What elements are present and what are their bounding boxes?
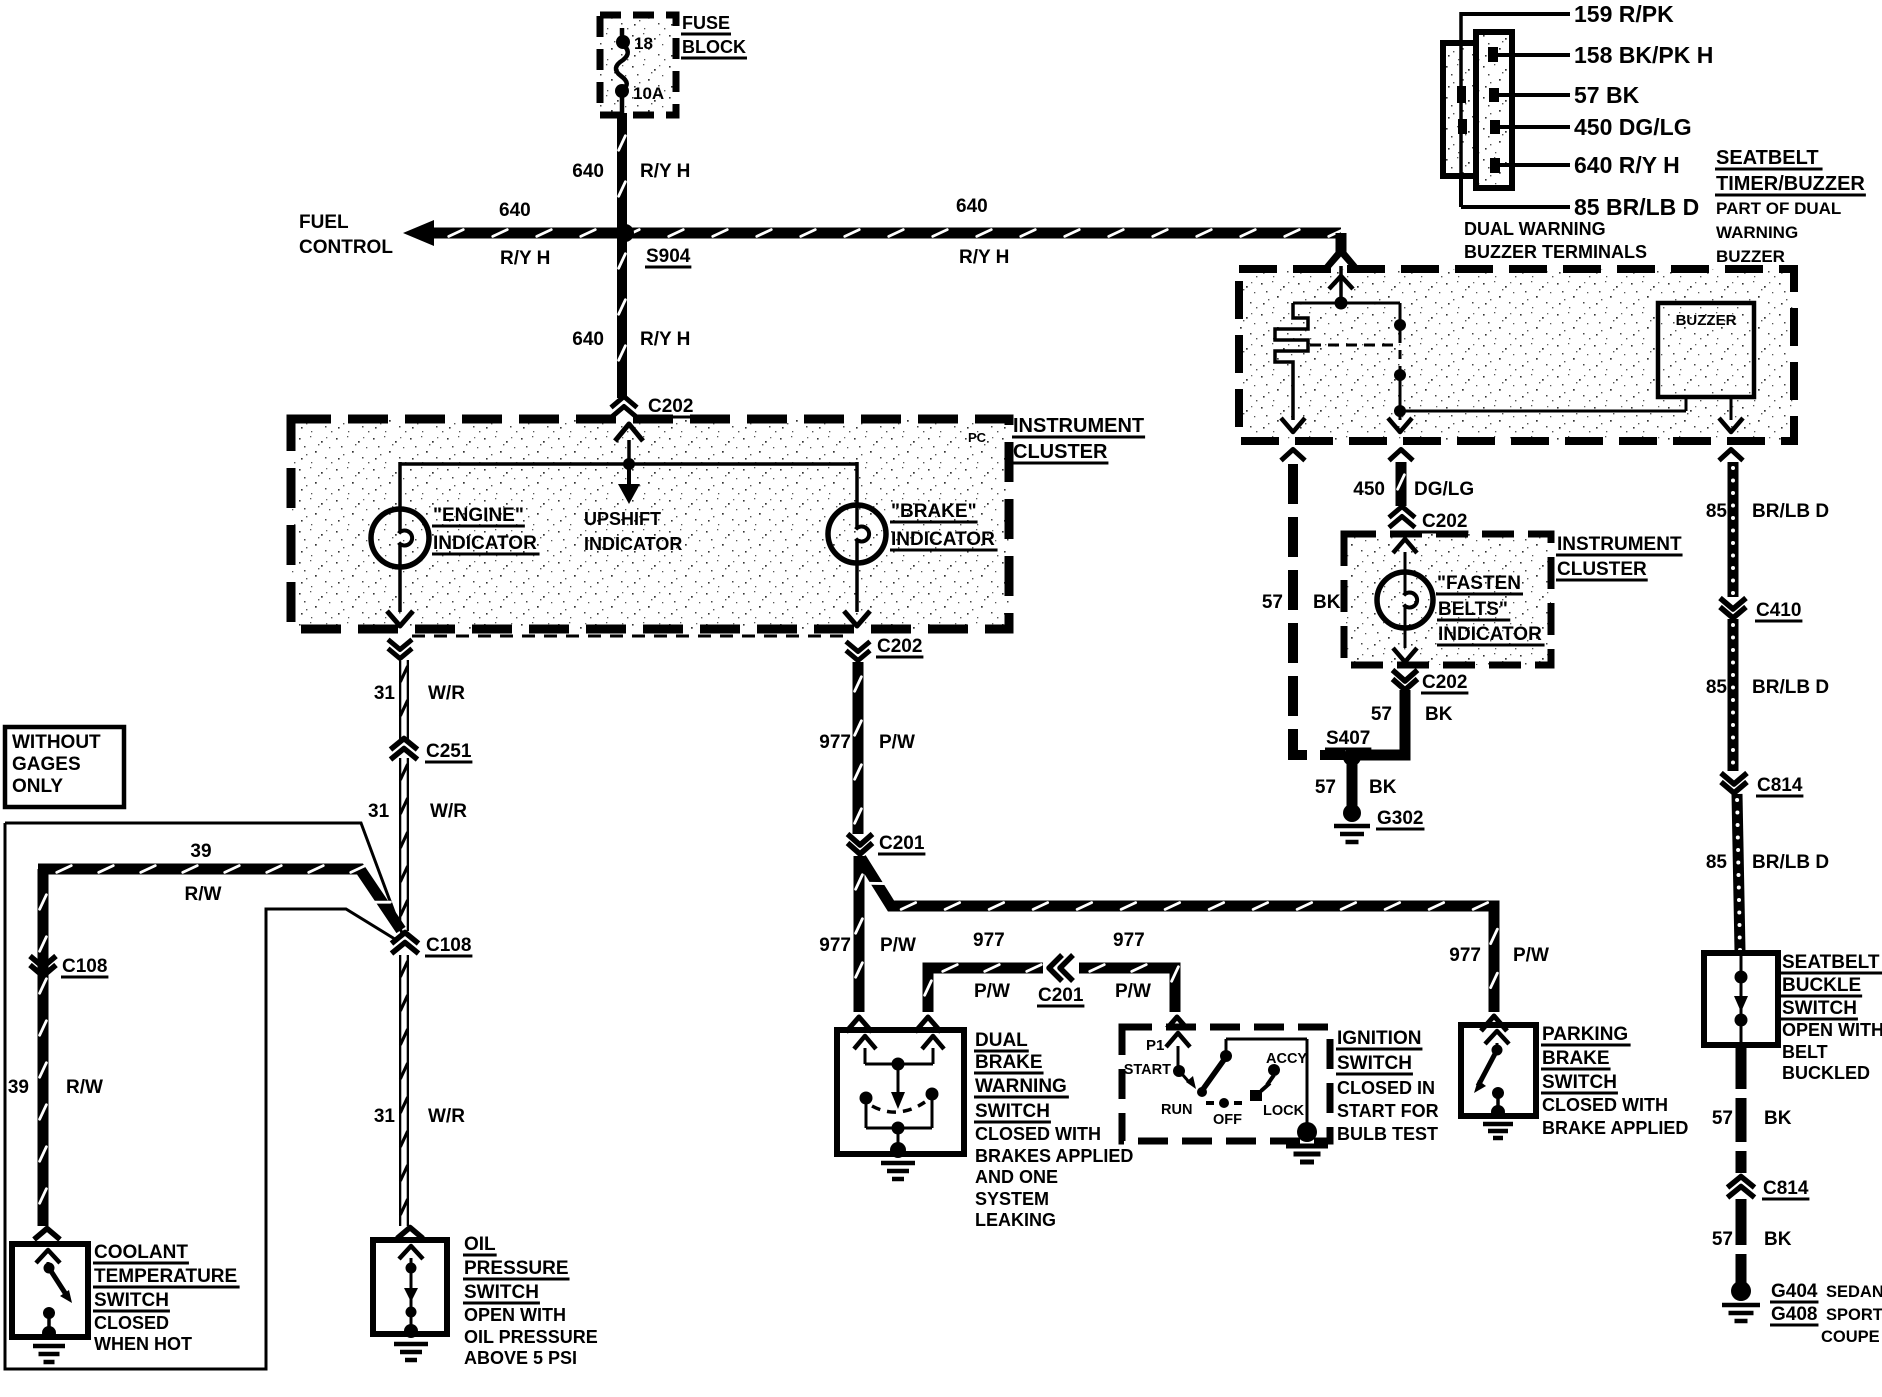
label 85 BR/LB D (middle) [1706, 677, 1829, 698]
svg-text:640: 640 [572, 329, 604, 350]
connector C202 (brake side) [846, 636, 923, 661]
svg-text:LOCK: LOCK [1263, 1103, 1305, 1119]
svg-text:OIL: OIL [464, 1234, 496, 1255]
label 640 R/Y H (cluster feed) [572, 329, 690, 350]
svg-text:CLUSTER: CLUSTER [1013, 441, 1108, 463]
label 85 BR/LB D (lower) [1706, 852, 1829, 873]
svg-text:INSTRUMENT: INSTRUMENT [1557, 534, 1682, 555]
parking brake switch [1461, 1025, 1536, 1119]
wire 85 BR/LB D C814 to buckle switch [1735, 794, 1742, 952]
svg-text:G302: G302 [1377, 808, 1423, 829]
svg-text:CLOSED WITH: CLOSED WITH [1542, 1095, 1668, 1115]
svg-text:BULB TEST: BULB TEST [1337, 1124, 1438, 1144]
ground G302 [1334, 804, 1424, 842]
wire 57 BK C814 to ground [1736, 1199, 1747, 1284]
without gages enclosure line (loop) [5, 823, 398, 1369]
svg-text:P/W: P/W [1115, 981, 1151, 1002]
svg-text:SYSTEM: SYSTEM [975, 1189, 1049, 1209]
svg-text:LEAKING: LEAKING [975, 1210, 1056, 1230]
connector C201 (brake feed) [848, 833, 926, 854]
svg-text:640: 640 [956, 196, 988, 217]
connector at buzzer (450 DG/LG) [1389, 450, 1413, 461]
seatbelt buckle switch [1704, 953, 1778, 1045]
label 57 BK (to ground) [1712, 1229, 1792, 1250]
label OIL PRESSURE SWITCH [463, 1234, 598, 1368]
terminal lead 159 R/PK [1461, 1, 1674, 178]
label 450 DG/LG [1353, 479, 1474, 500]
svg-text:C202: C202 [877, 636, 922, 657]
connector C814 [1721, 773, 1803, 796]
dual brake warning switch [837, 1030, 964, 1158]
svg-text:SWITCH: SWITCH [1782, 998, 1857, 1019]
connector at coolant switch [34, 1229, 60, 1240]
svg-text:INSTRUMENT: INSTRUMENT [1013, 415, 1144, 437]
svg-text:INDICATOR: INDICATOR [433, 533, 537, 554]
svg-text:31: 31 [374, 683, 396, 704]
svg-text:BK: BK [1369, 777, 1397, 798]
svg-text:G408: G408 [1771, 1304, 1817, 1325]
svg-text:BLOCK: BLOCK [682, 37, 746, 57]
svg-text:BRAKE: BRAKE [975, 1052, 1043, 1073]
svg-text:BR/LB D: BR/LB D [1752, 677, 1829, 698]
ground at parking brake switch [1483, 1124, 1513, 1138]
svg-text:R/Y H: R/Y H [640, 329, 690, 350]
label 57 BK (buzzer) [1262, 592, 1341, 613]
wire 85 BR/LB D C410 to C814 [1731, 619, 1735, 771]
svg-text:57: 57 [1712, 1108, 1733, 1129]
ignition switch box [1122, 1027, 1330, 1141]
connector at oil pressure switch [397, 1228, 423, 1239]
svg-text:AND ONE: AND ONE [975, 1167, 1058, 1187]
svg-text:85 BR/LB D: 85 BR/LB D [1574, 194, 1699, 220]
coolant temperature switch [12, 1244, 88, 1340]
ground at coolant switch [33, 1346, 65, 1362]
svg-text:57: 57 [1315, 777, 1336, 798]
svg-text:450: 450 [1353, 479, 1385, 500]
svg-text:C410: C410 [1756, 600, 1801, 621]
wire 640 R/Y H to fuel control (arrow) [403, 220, 1343, 246]
timer feed entry arrow [1326, 252, 1356, 303]
label 57 BK (ground lead) [1315, 777, 1397, 798]
dual warning buzzer terminals connector [1443, 32, 1512, 188]
label IGNITION SWITCH [1336, 1028, 1439, 1144]
svg-text:START: START [1124, 1062, 1171, 1078]
label DUAL BRAKE WARNING SWITCH [974, 1030, 1133, 1230]
svg-text:ABOVE 5 PSI: ABOVE 5 PSI [464, 1348, 577, 1368]
svg-text:C202: C202 [1422, 672, 1467, 693]
svg-text:977: 977 [1449, 945, 1481, 966]
svg-text:W/R: W/R [428, 683, 465, 704]
svg-text:BK: BK [1313, 592, 1341, 613]
terminal arrow into ignition switch [1164, 1017, 1190, 1032]
svg-text:DUAL WARNING: DUAL WARNING [1464, 219, 1606, 239]
ground G404/G408 [1722, 1281, 1882, 1346]
svg-text:COUPE: COUPE [1821, 1328, 1880, 1346]
svg-text:R/Y H: R/Y H [959, 247, 1009, 268]
svg-text:640: 640 [499, 200, 531, 221]
svg-text:85: 85 [1706, 852, 1728, 873]
label SEATBELT TIMER/BUZZER [1715, 147, 1866, 266]
wire 31 W/R engine indicator to C251 [401, 660, 408, 740]
engine indicator lamp [371, 505, 540, 567]
terminal arrow into parking brake switch [1481, 1016, 1507, 1031]
connector C202 (engine side) [388, 640, 412, 659]
wire 57 BK S407 to G302 [1347, 757, 1358, 806]
svg-text:WARNING: WARNING [1716, 223, 1798, 242]
svg-text:S407: S407 [1326, 728, 1370, 749]
svg-text:PARKING: PARKING [1542, 1024, 1628, 1045]
connector C202 (main feed) [611, 396, 694, 418]
svg-text:TIMER/BUZZER: TIMER/BUZZER [1716, 173, 1865, 195]
svg-text:31: 31 [374, 1106, 396, 1127]
svg-text:INDICATOR: INDICATOR [1438, 624, 1542, 645]
instrument cluster box [291, 415, 1145, 629]
splice S904 [616, 224, 691, 267]
label FUEL CONTROL [299, 212, 393, 258]
svg-text:WITHOUT: WITHOUT [12, 732, 101, 753]
label PARKING BRAKE SWITCH [1541, 1024, 1688, 1138]
instrument cluster (fasten belts) box [1344, 534, 1683, 665]
fuse 18 / 10A [615, 28, 664, 113]
svg-text:"ENGINE": "ENGINE" [433, 505, 524, 526]
svg-text:PC: PC [968, 430, 987, 445]
svg-text:FUSE: FUSE [682, 13, 730, 33]
svg-text:SEATBELT: SEATBELT [1782, 952, 1880, 973]
svg-text:85: 85 [1706, 501, 1728, 522]
fasten belts indicator lamp [1377, 539, 1545, 662]
svg-text:SPORT: SPORT [1826, 1306, 1882, 1324]
connector at buzzer (57 BK) [1281, 450, 1305, 461]
svg-text:CLUSTER: CLUSTER [1557, 559, 1647, 580]
oil pressure switch [373, 1240, 447, 1338]
connector C251 [391, 739, 473, 763]
svg-text:31: 31 [368, 801, 390, 822]
wire 57 BK fasten belts to S407 [1352, 690, 1405, 755]
connector C202 row (dashed line) [412, 635, 851, 638]
buzzer [1658, 303, 1754, 432]
svg-text:18: 18 [634, 34, 653, 53]
wire 57 BK buckle switch to C814 [1736, 1045, 1747, 1173]
svg-text:P/W: P/W [1513, 945, 1549, 966]
svg-text:10A: 10A [633, 84, 664, 103]
svg-text:57: 57 [1262, 592, 1283, 613]
svg-text:SEDAN: SEDAN [1826, 1283, 1882, 1301]
svg-text:C108: C108 [62, 956, 107, 977]
svg-text:BRAKE: BRAKE [1542, 1048, 1610, 1069]
svg-text:C108: C108 [426, 935, 471, 956]
wire 57 BK buzzer to S407 [1293, 464, 1345, 755]
terminal lead 158 BK/PK H [1498, 42, 1713, 68]
label 640 R/Y H (left run) [499, 200, 550, 269]
without gages only note box [5, 727, 124, 807]
svg-text:BRAKES APPLIED: BRAKES APPLIED [975, 1146, 1133, 1166]
svg-text:"FASTEN: "FASTEN [1437, 573, 1521, 594]
terminal lead 57 BK [1498, 82, 1640, 108]
label 977 P/W (dual brake) [819, 935, 916, 956]
svg-text:START FOR: START FOR [1337, 1101, 1439, 1121]
brake indicator exit wire [844, 563, 870, 626]
ignition switch internals [1124, 1033, 1308, 1128]
svg-text:158 BK/PK H: 158 BK/PK H [1574, 42, 1713, 68]
svg-text:977: 977 [973, 930, 1005, 951]
svg-text:450 DG/LG: 450 DG/LG [1574, 114, 1692, 140]
svg-text:"BRAKE": "BRAKE" [891, 501, 977, 522]
engine indicator exit wire [387, 567, 413, 626]
svg-text:S904: S904 [646, 246, 691, 267]
svg-text:INDICATOR: INDICATOR [891, 529, 995, 550]
connector C108 (coolant circuit) [30, 956, 108, 977]
wire 85 BR/LB D buzzer to C410 [1731, 462, 1735, 597]
ground at oil pressure switch [394, 1344, 428, 1360]
svg-text:ONLY: ONLY [12, 776, 63, 797]
svg-text:OPEN WITH: OPEN WITH [464, 1305, 566, 1325]
ground at ignition switch [1286, 1122, 1328, 1162]
svg-text:977: 977 [1113, 930, 1145, 951]
wire 640 R/Y H fuse block to S904 [619, 113, 626, 233]
svg-text:P1: P1 [1146, 1037, 1164, 1054]
terminal lead 85 BR/LB D [1461, 176, 1699, 220]
svg-text:640: 640 [572, 161, 604, 182]
label 977 P/W (right of C201) [1113, 930, 1151, 1002]
svg-text:977: 977 [819, 935, 851, 956]
svg-text:SWITCH: SWITCH [975, 1101, 1050, 1122]
svg-text:CLOSED: CLOSED [94, 1313, 169, 1333]
svg-text:85: 85 [1706, 677, 1728, 698]
ground at dual brake warning switch [881, 1163, 915, 1179]
label 977 P/W (parking brake) [1449, 945, 1549, 966]
svg-text:DG/LG: DG/LG [1414, 479, 1474, 500]
svg-text:P/W: P/W [974, 981, 1010, 1002]
svg-text:R/W: R/W [185, 884, 222, 905]
svg-text:977: 977 [819, 732, 851, 753]
label 640 R/Y H (fuse feed) [572, 161, 690, 182]
wire 640 R/Y H to seatbelt timer/buzzer [1326, 233, 1356, 268]
svg-text:BELT: BELT [1782, 1042, 1828, 1062]
svg-text:C251: C251 [426, 741, 472, 762]
label 977 P/W (left of C201) [973, 930, 1010, 1002]
svg-text:57: 57 [1712, 1229, 1733, 1250]
label 39 R/W (horizontal) [185, 841, 222, 905]
svg-text:R/Y H: R/Y H [640, 161, 690, 182]
svg-text:CONTROL: CONTROL [299, 237, 393, 258]
svg-text:SWITCH: SWITCH [1337, 1053, 1412, 1074]
svg-text:W/R: W/R [428, 1106, 465, 1127]
svg-text:G404: G404 [1771, 1281, 1818, 1302]
label 31 (enclosure) [368, 801, 467, 822]
svg-text:BRAKE APPLIED: BRAKE APPLIED [1542, 1118, 1688, 1138]
wire 977 P/W C201 to dual brake warning switch [856, 856, 863, 1012]
timer internal wiring [1275, 297, 1686, 433]
svg-text:GAGES: GAGES [12, 754, 81, 775]
seatbelt timer/buzzer box [1239, 269, 1794, 441]
svg-text:57: 57 [1371, 704, 1392, 725]
svg-text:BK: BK [1425, 704, 1453, 725]
svg-text:OFF: OFF [1213, 1112, 1242, 1128]
svg-text:OIL PRESSURE: OIL PRESSURE [464, 1327, 598, 1347]
svg-text:FUEL: FUEL [299, 212, 349, 233]
wire 640 R/Y H S904 to C202 [619, 233, 626, 398]
svg-text:TEMPERATURE: TEMPERATURE [94, 1266, 237, 1287]
svg-text:39: 39 [8, 1077, 29, 1098]
connector C202 (450 DG/LG) [1389, 507, 1468, 533]
label 31 W/R (lower) [374, 1106, 465, 1127]
wire 450 DG/LG [1398, 462, 1405, 506]
label 640 R/Y H (right run) [956, 196, 1009, 268]
svg-text:W/R: W/R [430, 801, 467, 822]
label DUAL WARNING BUZZER TERMINALS [1464, 219, 1647, 262]
svg-text:SWITCH: SWITCH [464, 1282, 539, 1303]
svg-text:ACCY: ACCY [1266, 1051, 1307, 1067]
connector C410 [1720, 598, 1802, 621]
svg-text:SEATBELT: SEATBELT [1716, 147, 1819, 169]
svg-text:RUN: RUN [1161, 1102, 1192, 1118]
svg-text:57 BK: 57 BK [1574, 82, 1640, 108]
svg-text:C202: C202 [648, 396, 693, 417]
label 31 W/R (upper) [374, 683, 465, 704]
svg-text:P/W: P/W [879, 732, 915, 753]
label 57 BK (fasten belts) [1371, 704, 1453, 725]
svg-text:C814: C814 [1757, 775, 1803, 796]
wire 31 W/R C108 to oil pressure switch [401, 955, 408, 1226]
svg-text:UPSHIFT: UPSHIFT [584, 509, 661, 529]
svg-text:DUAL: DUAL [975, 1030, 1028, 1051]
connector at buzzer (85 BR/LB D) [1719, 450, 1743, 461]
svg-text:BELTS": BELTS" [1438, 599, 1508, 620]
svg-text:COOLANT: COOLANT [94, 1242, 188, 1263]
terminal lead 640 R/Y H [1499, 152, 1680, 178]
svg-text:WHEN HOT: WHEN HOT [94, 1334, 192, 1354]
label 39 R/W (vertical) [8, 1077, 103, 1098]
svg-text:SWITCH: SWITCH [1542, 1072, 1617, 1093]
svg-text:C814: C814 [1763, 1178, 1809, 1199]
label SEATBELT BUCKLE SWITCH [1781, 952, 1882, 1083]
wire 977 P/W dual brake to ignition switch [925, 965, 1179, 1012]
svg-text:BK: BK [1764, 1229, 1792, 1250]
wire 39 R/W coolant switch to C108 [38, 866, 401, 1226]
label 57 BK (buckle) [1712, 1108, 1792, 1129]
svg-text:BR/LB D: BR/LB D [1752, 852, 1829, 873]
svg-text:BUCKLE: BUCKLE [1782, 975, 1861, 996]
svg-text:PRESSURE: PRESSURE [464, 1258, 569, 1279]
svg-text:SWITCH: SWITCH [94, 1290, 169, 1311]
svg-text:IGNITION: IGNITION [1337, 1028, 1421, 1049]
svg-text:BUZZER TERMINALS: BUZZER TERMINALS [1464, 242, 1647, 262]
wire 977 P/W branch to parking brake switch [861, 858, 1497, 1012]
svg-text:BUZZER: BUZZER [1716, 247, 1785, 266]
svg-text:BUZZER: BUZZER [1676, 312, 1737, 329]
svg-text:39: 39 [190, 841, 211, 862]
svg-text:BK: BK [1764, 1108, 1792, 1129]
connector C108 (oil pressure circuit) [392, 933, 473, 957]
cluster internal bus wire [400, 458, 857, 509]
cluster feed entry arrow [615, 424, 643, 464]
svg-text:PART OF DUAL: PART OF DUAL [1716, 199, 1841, 218]
svg-text:BR/LB D: BR/LB D [1752, 501, 1829, 522]
svg-text:BUCKLED: BUCKLED [1782, 1063, 1870, 1083]
label COOLANT TEMPERATURE SWITCH [93, 1242, 240, 1354]
connector C814 (floor) [1728, 1177, 1810, 1200]
svg-text:INDICATOR: INDICATOR [584, 534, 682, 554]
upshift indicator arrow [584, 464, 682, 554]
svg-text:640 R/Y H: 640 R/Y H [1574, 152, 1680, 178]
svg-text:CLOSED WITH: CLOSED WITH [975, 1124, 1101, 1144]
without gages enclosure line (top) [5, 823, 403, 936]
svg-text:OPEN WITH: OPEN WITH [1782, 1020, 1882, 1040]
connector C201 (in-line) [1037, 955, 1084, 1006]
wire 977 P/W brake indicator to C201 [855, 662, 862, 834]
label 977 P/W (upper) [819, 732, 915, 753]
svg-text:WARNING: WARNING [975, 1076, 1067, 1097]
brake indicator lamp [828, 501, 998, 563]
wire 31 W/R C251 to C108 [401, 758, 408, 931]
fuse block [600, 13, 747, 115]
splice S407 [1325, 728, 1371, 766]
svg-text:R/W: R/W [66, 1077, 103, 1098]
svg-text:C201: C201 [879, 833, 925, 854]
label 85 BR/LB D (upper) [1706, 501, 1829, 522]
terminal arrows into dual brake switch [846, 1017, 941, 1032]
svg-text:C201: C201 [1038, 985, 1084, 1006]
terminal lead 450 DG/LG [1499, 114, 1692, 140]
svg-text:CLOSED IN: CLOSED IN [1337, 1078, 1435, 1098]
svg-text:P/W: P/W [880, 935, 916, 956]
svg-text:C202: C202 [1422, 511, 1467, 532]
svg-text:159 R/PK: 159 R/PK [1574, 1, 1674, 27]
svg-text:R/Y H: R/Y H [500, 248, 550, 269]
connector C202 (fasten belts) [1393, 670, 1469, 693]
